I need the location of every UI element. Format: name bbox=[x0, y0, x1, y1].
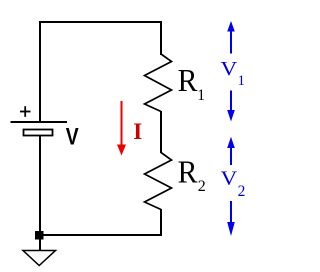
wire: top horizontal from left branch to right branch bbox=[39, 21, 162, 23]
battery V negative plate bbox=[24, 130, 53, 136]
wire: battery negative terminal down to ground junction bbox=[39, 136, 41, 235]
wire: battery positive terminal up to top-left corner bbox=[39, 22, 41, 122]
wire: between R1 and R2 bbox=[160, 111, 162, 153]
svg-text:I: I bbox=[133, 119, 142, 144]
battery plus sign bbox=[20, 111, 31, 113]
arrow V2 up (blue) bbox=[227, 137, 235, 148]
wire: junction down to ground symbol bbox=[39, 239, 41, 250]
svg-text:V: V bbox=[66, 122, 79, 150]
svg-text:V: V bbox=[221, 167, 238, 189]
wire: bottom horizontal from ground junction to right branch bbox=[40, 234, 162, 236]
svg-text:R: R bbox=[178, 62, 198, 98]
arrow V2 down (blue) bbox=[230, 201, 232, 223]
current arrow I (red) bbox=[121, 101, 123, 146]
arrow V1 down (blue) bbox=[230, 91, 232, 112]
svg-text:R: R bbox=[178, 153, 198, 189]
wire: top-right corner down to resistor R1 top bbox=[160, 21, 162, 55]
svg-text:V: V bbox=[221, 58, 238, 80]
arrow V1 up (blue) bbox=[227, 21, 235, 32]
svg-text:2: 2 bbox=[238, 183, 246, 200]
battery V positive plate bbox=[11, 121, 68, 123]
resistor R1 bbox=[145, 54, 172, 112]
svg-text:1: 1 bbox=[238, 73, 245, 89]
node: junction of battery, bottom wire and ground bbox=[35, 231, 44, 240]
svg-text:1: 1 bbox=[197, 87, 205, 104]
svg-text:2: 2 bbox=[198, 178, 206, 195]
ground bbox=[23, 251, 56, 266]
resistor R2 bbox=[145, 153, 172, 210]
wire: resistor R2 bottom down to bottom-right corner bbox=[160, 209, 162, 236]
